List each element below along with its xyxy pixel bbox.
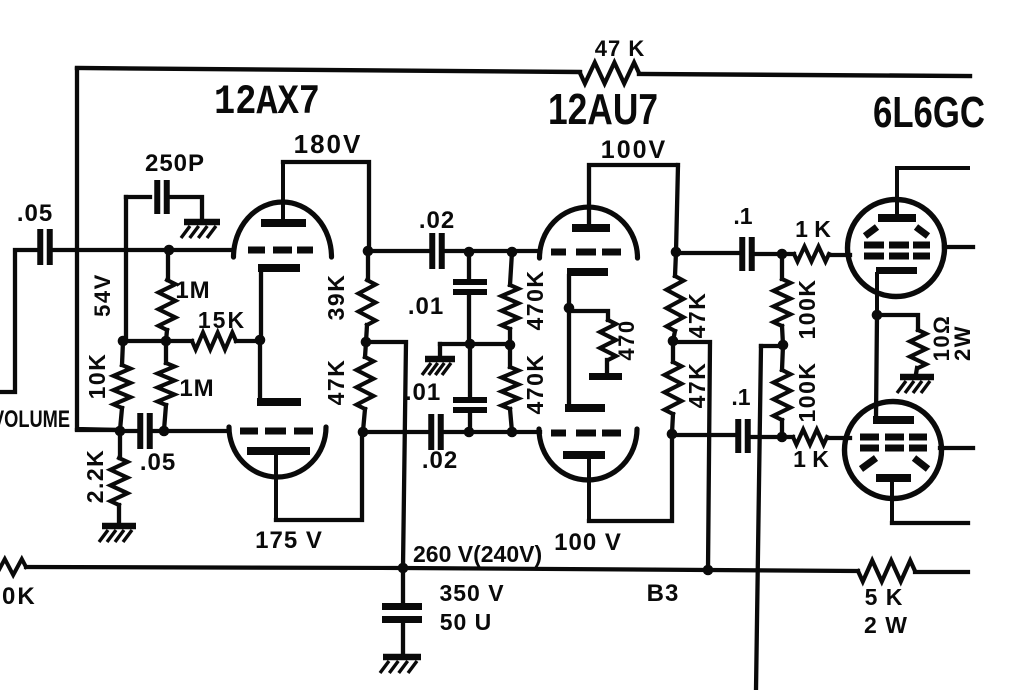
resistor 15K <box>192 333 236 350</box>
triode 12AU7a plate <box>572 224 610 232</box>
svg-text:15K: 15K <box>198 307 246 333</box>
triode 12AU7b grid (dashed) <box>551 430 621 437</box>
resistor 39K <box>359 280 376 325</box>
node bus 350V cap <box>398 563 409 574</box>
wire 1M lower leads <box>164 341 166 430</box>
wire 470K upper leads <box>510 252 512 345</box>
resistor 1M (lower) <box>158 363 175 405</box>
wire 2.2K bottom lead <box>117 505 121 522</box>
wire 1M upper bottom lead <box>166 330 167 341</box>
resistor 5K 2W <box>858 561 915 582</box>
tetrode 6L6b plate <box>876 474 911 482</box>
wire 250P right lead <box>169 197 202 218</box>
svg-text:.1: .1 <box>731 384 750 410</box>
resistor 1M (upper) <box>159 280 176 330</box>
wire 47K AU lower leads <box>672 341 673 433</box>
wire B+ node to bus <box>366 342 406 567</box>
svg-text:470: 470 <box>614 319 639 360</box>
ground tone stack <box>425 356 455 363</box>
resistor 10K <box>114 365 131 408</box>
node bias mid <box>778 340 789 351</box>
wire 100V plate loop <box>589 165 678 252</box>
svg-text:470K: 470K <box>522 270 548 331</box>
node B+ 39K/47K <box>361 337 372 348</box>
wire 1K to 6L6 grid upper <box>829 253 850 257</box>
tetrode 6L6b cathode <box>873 416 914 424</box>
svg-text:.01: .01 <box>405 379 441 406</box>
svg-text:.02: .02 <box>419 207 455 234</box>
wire 100K lower leads <box>782 345 783 437</box>
node 100K lower <box>777 432 788 443</box>
node 12AX7b plate <box>358 427 369 438</box>
svg-text:5 K: 5 K <box>865 584 904 610</box>
resistor 470K upper <box>502 285 519 329</box>
wire 470K lower leads <box>510 345 512 432</box>
wire 12AU7 cathode link <box>567 276 571 409</box>
wire divider mid to bus <box>673 342 710 570</box>
node divider-10K <box>118 336 129 347</box>
resistor 100K lower <box>774 370 791 420</box>
svg-text:2W: 2W <box>950 325 975 361</box>
wire divider row <box>123 339 260 343</box>
triode 12AX7a plate <box>261 219 306 227</box>
wire tone mid row <box>440 342 510 346</box>
svg-text:350 V: 350 V <box>439 580 504 606</box>
wire 12AU7a plate to .1 <box>676 251 740 255</box>
svg-text:54V: 54V <box>90 273 115 317</box>
svg-text:12AX7: 12AX7 <box>214 78 320 126</box>
svg-text:1M: 1M <box>175 277 210 304</box>
node divider-1M <box>161 336 172 347</box>
wire 100V lower plate loop <box>589 433 672 521</box>
wire grid divider vertical <box>124 197 128 341</box>
svg-text:.05: .05 <box>140 449 176 476</box>
wire 12AX7 cathode link <box>260 272 261 398</box>
tetrode 6L6a plate <box>878 214 916 222</box>
wire 39K top lead <box>366 251 370 280</box>
resistor 1K lower <box>793 430 827 445</box>
triode 12AX7a envelope <box>234 202 332 257</box>
node cathode-15K <box>255 335 266 346</box>
node tone-mid-.01 <box>465 339 476 350</box>
triode 12AX7b cathode <box>257 398 301 406</box>
svg-text:0K: 0K <box>2 583 37 610</box>
triode 12AX7b envelope <box>229 427 326 477</box>
svg-text:10K: 10K <box>84 353 110 400</box>
triode 12AX7a cathode <box>258 264 300 272</box>
svg-text:.02: .02 <box>422 447 458 474</box>
svg-text:VOLUME: VOLUME <box>0 406 70 433</box>
tetrode 6L6a control grid (dashes) <box>865 227 928 236</box>
wire 47K 12AX7 leads <box>363 342 366 431</box>
wire top feedback bus <box>77 68 970 76</box>
capacitor .01 (lower) <box>453 400 487 410</box>
resistor 470K lower <box>502 367 519 409</box>
node 12AU7a plate <box>671 247 682 258</box>
svg-text:100K: 100K <box>794 279 820 340</box>
capacitor .1 (lower) <box>738 419 748 453</box>
triode 12AX7a grid (dashed) <box>248 247 313 254</box>
node .01-row-upper <box>464 247 475 258</box>
resistor 47K 12AX7 <box>357 357 374 409</box>
node volume-1M <box>159 426 170 437</box>
svg-text:47K: 47K <box>684 292 710 339</box>
capacitor 350V 50U (filter) <box>382 607 422 620</box>
resistor 47K (feedback, top) <box>580 63 639 84</box>
wire volume row left <box>77 428 120 432</box>
triode 12AU7b envelope <box>539 429 637 480</box>
wire 6L6 upper plate loop <box>897 168 968 215</box>
wire 47K AU upper leads <box>673 252 676 341</box>
svg-text:2.2K: 2.2K <box>82 449 108 504</box>
wire input stub left <box>0 250 39 392</box>
wire input row to grid <box>52 248 233 252</box>
wire 39K bottom lead <box>366 325 367 342</box>
capacitor .01 (upper) <box>453 282 487 292</box>
capacitor .1 (upper) <box>742 237 752 271</box>
wire cathode to 10ohm <box>877 315 918 330</box>
tetrode 6L6a screen grid (dashes) <box>864 245 930 256</box>
resistor 100K upper <box>774 279 791 326</box>
wire .01 upper bottom lead <box>467 294 471 344</box>
svg-text:50 U: 50 U <box>440 609 493 635</box>
svg-text:250P: 250P <box>145 150 205 177</box>
wire volume row to grid <box>164 429 229 433</box>
svg-text:.05: .05 <box>17 200 53 227</box>
wire .01 lower leads <box>468 344 472 432</box>
svg-text:1M: 1M <box>179 375 214 402</box>
node 12AU7 cathode junction <box>564 303 575 314</box>
wire 180V plate loop <box>283 162 369 251</box>
capacitor .05 (input) <box>40 229 50 265</box>
node 100K upper <box>777 249 788 260</box>
node .01-row-lower <box>464 427 475 438</box>
wire 470 bottom lead <box>605 360 609 372</box>
node bus B3 <box>703 565 714 576</box>
wire 6L6a output (plate side) <box>944 245 973 249</box>
resistor 47K 12AU7 upper <box>667 276 684 331</box>
wire 100K upper leads <box>782 254 783 345</box>
capacitor .05 (volume) <box>120 429 164 433</box>
triode 12AX7b plate <box>247 447 310 455</box>
node 6L6 cathode <box>872 310 883 321</box>
svg-text:.01: .01 <box>408 293 444 320</box>
capacitor .02 (lower coupling) <box>431 414 441 450</box>
triode 12AU7b cathode <box>565 404 605 412</box>
resistor 2.2K <box>111 458 128 505</box>
capacitor 250P <box>157 180 167 214</box>
wire 12AX7b plate to .02 <box>363 430 427 434</box>
svg-text:47K: 47K <box>323 359 349 406</box>
svg-text:175 V: 175 V <box>255 527 323 554</box>
svg-text:6L6GC: 6L6GC <box>873 88 985 137</box>
node tone-mid-470K <box>505 340 516 351</box>
ground 10 ohm <box>900 374 934 381</box>
tetrode 6L6a envelope <box>848 200 945 297</box>
svg-text:47K: 47K <box>684 362 710 409</box>
svg-text:470K: 470K <box>522 354 548 415</box>
svg-text:260 V(240V): 260 V(240V) <box>413 541 542 567</box>
svg-text:1 K: 1 K <box>793 446 829 472</box>
triode 12AU7b plate <box>563 451 605 459</box>
svg-text:2 W: 2 W <box>864 612 908 638</box>
wire 12AU7b plate to .1 <box>672 433 737 437</box>
svg-text:B3: B3 <box>647 580 680 607</box>
wire left vertical (volume wiper) <box>77 69 120 430</box>
triode 12AU7b cathode tap bar <box>589 373 622 380</box>
wire tone ground lead <box>438 344 442 355</box>
node 12AU7b plate <box>667 429 678 440</box>
resistor 0K stub (left edge) <box>0 559 26 575</box>
wire .01 upper lead <box>467 252 471 278</box>
svg-text:1 K: 1 K <box>795 216 831 242</box>
tetrode 6L6a cathode <box>876 267 917 274</box>
resistor 47K 12AU7 lower <box>665 362 682 414</box>
node 470K-row-lower <box>507 427 518 438</box>
wire 12AX7a plate to .02 <box>368 249 428 253</box>
svg-text:180V: 180V <box>294 129 363 159</box>
svg-text:39K: 39K <box>323 274 349 321</box>
svg-text:47 K: 47 K <box>595 36 645 61</box>
wire 6L6b output (plate side) <box>940 446 973 450</box>
tetrode 6L6b control grid (dashes) <box>861 458 928 469</box>
resistor 470 <box>600 320 616 360</box>
node 470K-row-upper <box>507 247 518 258</box>
capacitor .02 (upper coupling) <box>432 233 442 269</box>
ground filter cap <box>383 654 421 661</box>
wire bottom bus <box>26 567 968 572</box>
ground 2.2K <box>102 523 136 530</box>
wire cathode link 6L6 <box>876 315 877 418</box>
svg-text:12AU7: 12AU7 <box>548 85 658 134</box>
triode 12AU7a cathode <box>567 268 608 276</box>
resistor 10 ohm <box>910 330 926 368</box>
wire 1M upper top lead <box>166 250 170 280</box>
wire 350V cap bottom lead <box>401 620 405 653</box>
wire 2.2K top lead <box>118 431 122 458</box>
wire 6L6b plate to right <box>892 521 968 525</box>
node grid-1M <box>164 245 175 256</box>
wire .02 to 12AU7 grid row <box>445 430 540 434</box>
tetrode 6L6b envelope <box>845 402 942 499</box>
wire .02 to 12AU7 grid <box>446 249 540 253</box>
svg-text:100K: 100K <box>794 362 820 423</box>
triode 12AU7a envelope <box>540 207 638 258</box>
wire .1 to 1K upper <box>755 252 794 256</box>
wire 250P left lead <box>126 195 150 199</box>
wire bias node stub <box>761 344 783 348</box>
triode 12AU7a grid (dashed) <box>551 249 621 256</box>
wire 350V cap lead <box>401 568 405 602</box>
wire .1 to 1K lower <box>751 435 793 439</box>
node 12AX7a plate <box>363 246 374 257</box>
wire 10ohm to ground <box>916 368 917 374</box>
wire bias vertical <box>756 346 761 690</box>
svg-text:.1: .1 <box>733 203 752 229</box>
ground 250P <box>184 219 220 226</box>
resistor 1K upper <box>794 247 829 262</box>
node 12AU7 divider mid <box>668 336 679 347</box>
tetrode 6L6b screen grid (dashes) <box>860 437 927 448</box>
wire 470 top lead <box>569 311 608 320</box>
wire 1K to 6L6 grid lower <box>827 436 850 440</box>
triode 12AX7b grid (dashed) <box>240 428 313 435</box>
wire 175V plate loop <box>276 432 362 520</box>
wire 10K leads <box>120 341 123 430</box>
node volume-2.2K <box>115 426 126 437</box>
svg-text:100V: 100V <box>601 136 667 164</box>
svg-text:100 V: 100 V <box>554 529 622 556</box>
